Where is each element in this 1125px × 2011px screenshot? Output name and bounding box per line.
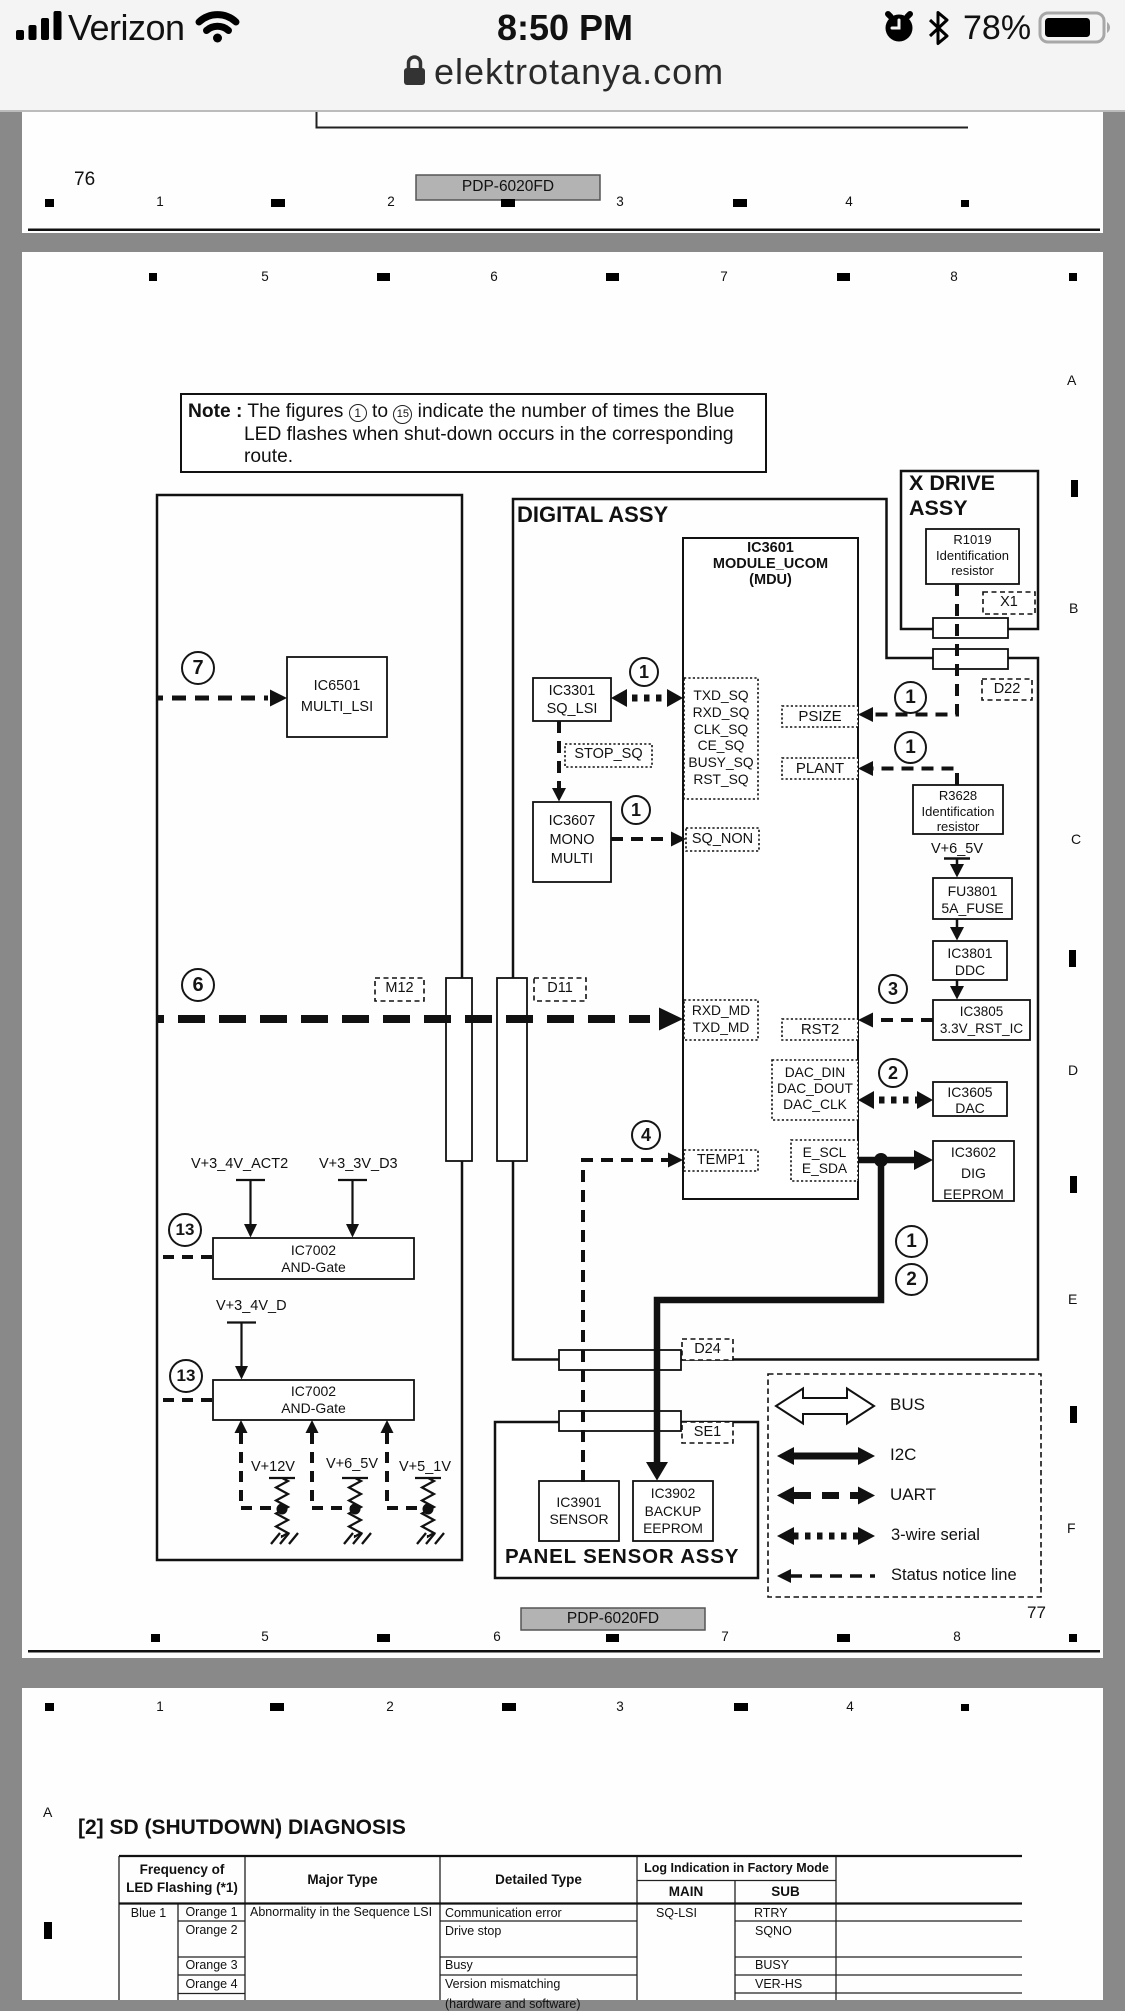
wire dashed circle7 to IC6501 bbox=[156, 696, 268, 701]
table grid bbox=[119, 1856, 1022, 2000]
page78 top tick marks bbox=[45, 1703, 969, 1711]
V+6_5V net bar and wire bbox=[944, 859, 970, 867]
circled number 6 bbox=[181, 968, 215, 1002]
IC7002 lower text bbox=[213, 1383, 414, 1417]
IC3602 DIG EEPROM box bbox=[933, 1141, 1014, 1201]
V+3_3V_D3 net bar and arrow into IC7002 bbox=[338, 1180, 367, 1226]
RXD_MD text bbox=[684, 1003, 758, 1037]
wire dashed TEMP1 route to IC3901 bbox=[583, 1160, 670, 1482]
dashed riser V+12V bbox=[235, 1420, 248, 1433]
battery icon bbox=[1040, 13, 1110, 42]
note box bbox=[181, 394, 766, 472]
IC6501 MULTI_LSI box bbox=[287, 657, 387, 737]
X DRIVE ASSY outline box bbox=[901, 471, 1038, 629]
E_SCL E_SDA dotted signal box bbox=[791, 1140, 858, 1181]
V+6_5V net label bbox=[917, 841, 997, 858]
circled number 1 (mono multi) bbox=[621, 795, 651, 825]
I2C thick wire down to IC3902 bbox=[657, 1160, 881, 1468]
V+3_4V_ACT2 net bar and arrow into IC7002 bbox=[236, 1180, 265, 1226]
IC3607 MONO MULTI box bbox=[533, 802, 611, 882]
D22 label bbox=[982, 681, 1032, 698]
page77 ruler numbers bottom bbox=[245, 1629, 285, 1645]
page78 title bbox=[78, 1816, 406, 1840]
M12 dashed ref box bbox=[375, 978, 424, 1001]
E_SCL text bbox=[791, 1145, 858, 1177]
connector (digital top right) bbox=[933, 649, 1008, 669]
V+6_5V label (lower) bbox=[326, 1456, 378, 1473]
dashed riser V+5_1V bbox=[381, 1420, 394, 1433]
SE1 label bbox=[682, 1424, 733, 1441]
connector (X drive bottom) bbox=[933, 618, 1008, 638]
wire FU3801 to IC3801 bbox=[956, 919, 959, 928]
circled number 1 (i2c) bbox=[895, 1225, 928, 1258]
page77 bottom tick marks bbox=[151, 1634, 1077, 1642]
resistor R (V+5_1V) with junction and ground bbox=[415, 1478, 441, 1537]
table header texts bbox=[119, 1861, 245, 1897]
TXD signal names bbox=[684, 688, 758, 789]
wire dashed IC3301 to IC3607 bbox=[557, 721, 561, 790]
IC7002 upper text bbox=[213, 1242, 414, 1276]
wire IC3801 to IC3805 bbox=[956, 980, 959, 988]
UART wire circle6 to RXD_MD (thick dashed) bbox=[156, 1015, 650, 1023]
page77 bottom frame line bbox=[28, 1650, 1100, 1653]
IC3607 text bbox=[533, 812, 611, 869]
wire dashed IC3805 to RST2 bbox=[872, 1018, 933, 1022]
FU3801 text bbox=[933, 883, 1012, 916]
IC3801 text bbox=[933, 945, 1007, 978]
legend labels bbox=[890, 1395, 925, 1415]
circled number 1 (psize) bbox=[894, 681, 927, 714]
IC7002 AND-Gate box (lower) bbox=[213, 1380, 414, 1420]
SQ_NON dotted signal box bbox=[686, 828, 759, 851]
page77 bottom PDP-6020FD text bbox=[521, 1610, 705, 1628]
board connector (digital left, tall) bbox=[497, 978, 527, 1161]
PDF page 77 (diagram page) bbox=[22, 252, 1103, 1658]
page number 77 bbox=[1027, 1603, 1046, 1623]
arrowhead into FU3801 bbox=[950, 864, 964, 878]
X DRIVE ASSY title bbox=[909, 471, 995, 521]
page78 fold letter A bbox=[43, 1804, 52, 1820]
PDF page 76 (partial, top) bbox=[22, 112, 1103, 233]
wire dashed circle13 to IC7002 lower bbox=[163, 1398, 212, 1402]
connector SE1 (panel top) bbox=[559, 1411, 681, 1431]
page77 PDP-6020FD gray label box bbox=[521, 1608, 705, 1630]
page78 ruler numbers bbox=[140, 1699, 180, 1715]
RST2 dotted signal box bbox=[782, 1019, 858, 1040]
circled number 1 (sq_lsi) bbox=[629, 657, 659, 687]
D11 label bbox=[534, 980, 586, 997]
page76 PDP-6020FD gray label box bbox=[416, 175, 600, 200]
circled number 7 bbox=[181, 651, 215, 685]
arrowhead into PLANT bbox=[858, 761, 873, 776]
arrowhead into PSIZE bbox=[858, 707, 873, 722]
PANEL SENSOR ASSY outline box bbox=[495, 1422, 758, 1578]
DIGITAL ASSY title bbox=[517, 502, 668, 527]
V+3_4V_D net bar and arrow into IC7002 bbox=[227, 1323, 256, 1369]
V+12V label bbox=[251, 1459, 295, 1476]
IC3601 MODULE_UCOM (MDU) box bbox=[683, 538, 858, 1199]
status bar text bbox=[68, 7, 185, 48]
IC3801 DDC box bbox=[933, 941, 1007, 980]
R3628 text bbox=[913, 788, 1003, 835]
left assy outline box bbox=[157, 495, 462, 1560]
I2C junction node bbox=[874, 1153, 888, 1167]
IC3901 text bbox=[539, 1494, 619, 1528]
D24 label bbox=[682, 1341, 733, 1358]
connector D24 (digital bottom) bbox=[559, 1350, 681, 1370]
SE1 dashed ref box bbox=[682, 1422, 733, 1443]
PLANT dotted signal box bbox=[782, 758, 858, 779]
arrowhead into IC3607 bbox=[552, 788, 566, 802]
legend BUS hollow double arrow bbox=[776, 1389, 874, 1424]
D11 dashed ref box bbox=[534, 978, 586, 1001]
TEMP1 dotted signal box bbox=[684, 1150, 758, 1171]
note text bbox=[188, 401, 734, 468]
IC3602 text bbox=[933, 1142, 1014, 1205]
legend I2C arrow bbox=[791, 1453, 859, 1460]
TXD..RST_SQ dotted signal box bbox=[684, 678, 758, 799]
legend dashed frame bbox=[768, 1374, 1041, 1597]
legend UART arrow bbox=[794, 1492, 858, 1499]
circled number 2 (i2c) bbox=[895, 1263, 928, 1296]
page76 texts bbox=[74, 169, 95, 191]
page77 ruler numbers top bbox=[245, 269, 285, 285]
IC3605 text bbox=[933, 1084, 1007, 1116]
resistor R (V+12V) with junction and ground bbox=[269, 1478, 295, 1537]
wire dashed IC3607 to SQ_NON bbox=[611, 837, 674, 841]
wire dashed circle13 to IC7002 bbox=[163, 1255, 212, 1259]
DAC_DIN DOUT CLK dotted signal box bbox=[772, 1060, 858, 1120]
circled number 13 (upper) bbox=[168, 1213, 202, 1247]
V+3_4V_ACT2 label bbox=[191, 1156, 288, 1173]
I2C thick wire E_SCL to IC3602 bbox=[858, 1157, 922, 1164]
DIGITAL ASSY outline (notched) bbox=[513, 499, 1038, 1360]
page76 bottom tick marks bbox=[45, 199, 969, 207]
PDF page 78 (table page, partial bottom) bbox=[22, 1688, 1103, 2000]
page77 fold letters bbox=[1067, 372, 1076, 388]
X1 dashed ref box bbox=[983, 592, 1035, 614]
legend 3-wire serial arrow bbox=[793, 1533, 859, 1540]
IC3805 reset IC box bbox=[933, 1000, 1030, 1040]
page76 bottom frame line bbox=[28, 229, 1100, 232]
PSIZE label bbox=[782, 708, 858, 725]
resistor R (V+6_5V) with junction and ground bbox=[342, 1478, 368, 1537]
V+3_3V_D3 label bbox=[319, 1156, 398, 1173]
circled number 4 bbox=[631, 1120, 661, 1150]
IC3301 SQ_LSI box bbox=[533, 678, 611, 721]
R1019 text bbox=[926, 532, 1019, 579]
alarm clock icon bbox=[886, 14, 913, 42]
bluetooth icon bbox=[930, 13, 947, 44]
STOP_SQ dotted box bbox=[565, 744, 652, 767]
PSIZE dotted signal box bbox=[782, 706, 858, 727]
signal bars bbox=[0, 0, 1125, 112]
page76 table corner lines bbox=[316, 112, 969, 128]
IC6501 text bbox=[287, 676, 387, 718]
legend status notice line bbox=[790, 1574, 875, 1578]
page78 left margin fold tick bbox=[44, 1922, 52, 1939]
MDU title bbox=[683, 540, 858, 588]
RXD_MD TXD_MD dotted signal box bbox=[684, 1000, 758, 1040]
PLANT label bbox=[782, 760, 858, 777]
circled number 3 bbox=[878, 974, 908, 1004]
IC3805 text bbox=[933, 1004, 1030, 1037]
M12 label bbox=[375, 980, 424, 997]
circled number 1 (plant) bbox=[894, 731, 927, 764]
V+5_1V label bbox=[399, 1459, 451, 1476]
board connector (left, tall) bbox=[446, 978, 472, 1161]
iOS status / URL bar bbox=[0, 0, 1125, 112]
page77 top tick marks bbox=[149, 273, 1077, 281]
DAC signal names bbox=[772, 1065, 858, 1114]
X1 label bbox=[983, 594, 1035, 611]
circled number 13 (lower) bbox=[169, 1359, 203, 1393]
TEMP1 label bbox=[684, 1152, 758, 1169]
IC3301 text bbox=[533, 682, 611, 718]
wire dashed R1019 to PSIZE route bbox=[868, 584, 957, 715]
PANEL SENSOR ASSY title bbox=[505, 1545, 739, 1569]
IC7002 AND-Gate box (upper) bbox=[213, 1238, 414, 1279]
D24 dashed ref box bbox=[682, 1339, 733, 1360]
R1019 Identification resistor box bbox=[926, 529, 1019, 584]
arrowhead into IC3805 bbox=[950, 986, 964, 1000]
STOP_SQ label bbox=[565, 746, 652, 763]
wire dashed R3628 to PLANT route bbox=[868, 769, 957, 786]
circled number 2 (dac) bbox=[878, 1058, 908, 1088]
3-wire serial link IC3301-MDU bbox=[620, 695, 674, 702]
SQ_NON label bbox=[686, 831, 759, 848]
lock icon bbox=[404, 57, 425, 85]
V+3_4V_D label bbox=[216, 1298, 287, 1315]
wifi icon bbox=[199, 15, 236, 43]
D22 dashed ref box bbox=[982, 679, 1032, 700]
page77 right margin fold ticks bbox=[1069, 480, 1078, 1423]
arrowhead into IC3801 bbox=[950, 927, 964, 941]
dashed riser V+6_5V bbox=[306, 1420, 319, 1433]
IC3902 BACKUP EEPROM box bbox=[633, 1481, 713, 1541]
IC3902 text bbox=[633, 1485, 713, 1538]
IC3901 SENSOR box bbox=[539, 1481, 619, 1541]
arrowhead into RST2 bbox=[858, 1013, 873, 1028]
R3628 Identification resistor box bbox=[913, 785, 1003, 834]
IC3605 DAC box bbox=[933, 1082, 1007, 1116]
3-wire serial link DAC-IC3605 bbox=[867, 1097, 924, 1104]
table row texts bbox=[119, 1906, 178, 1920]
RST2 label bbox=[782, 1021, 858, 1038]
FU3801 fuse box bbox=[933, 878, 1012, 919]
